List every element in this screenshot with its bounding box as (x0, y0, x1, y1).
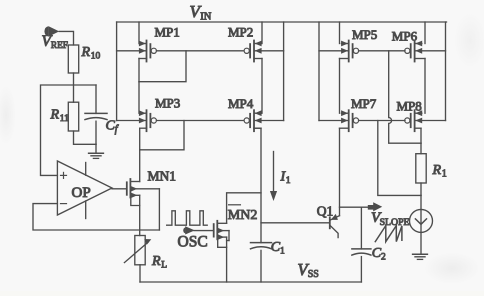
svg-text:MP4: MP4 (228, 96, 254, 111)
label MN2 (inverted clock) (228, 205, 258, 223)
wire MP6 drain to MP8 source (424, 59, 426, 114)
wire MP2 source to rail (261, 22, 263, 44)
wire gate line MP3 MP4 (157, 120, 244, 122)
wire Q1 base from MP4 drain column (261, 222, 329, 224)
label OSC (178, 233, 208, 250)
wire MP1 drain to MP3 source (138, 82, 140, 114)
wire C1 bottom to VSS (260, 250, 262, 282)
label MP7 (351, 96, 377, 111)
ground right (413, 254, 428, 259)
wire MP1 drain down (138, 59, 140, 82)
svg-text:R: R (81, 45, 91, 60)
svg-text:MN2: MN2 (228, 208, 258, 223)
wire left rail of MP5/MP7 group (318, 22, 320, 121)
transistor MN1 (127, 179, 160, 230)
svg-text:MP2: MP2 (228, 25, 253, 40)
label MP8 (397, 98, 422, 113)
capacitor C1 (251, 243, 272, 249)
svg-text:MP8: MP8 (397, 98, 422, 113)
label OP (72, 185, 91, 201)
wire ground stem (95, 144, 97, 153)
wire MP5 drain to MP7 source (339, 59, 341, 114)
wire RL bottom to VSS (139, 265, 141, 282)
transistor MP6 (405, 41, 446, 62)
wire MP8 drain down to R1 (420, 128, 422, 143)
label MP1 (155, 25, 180, 40)
label R11 (50, 108, 70, 125)
svg-text:Q1: Q1 (317, 203, 334, 218)
svg-text:OSC: OSC (178, 233, 208, 250)
transistor Q1 (330, 214, 340, 238)
wire R11 bottom to ground node (74, 131, 97, 144)
wire MP7 drain down to Q1 emitter (339, 128, 341, 216)
svg-text:MP1: MP1 (155, 25, 180, 40)
svg-text:MN1: MN1 (148, 169, 177, 184)
wire R1 top (420, 143, 422, 154)
wire right rail of MP2/MP4 group (283, 22, 285, 121)
wire MP2 drain to MP4 source (261, 59, 263, 114)
label MP5 (352, 27, 377, 42)
label MP3 (155, 95, 180, 110)
OSC pulse waveform (167, 211, 208, 225)
wire op-amp minus feedback (33, 204, 159, 230)
svg-text:11: 11 (60, 114, 69, 124)
transistor MP8 (405, 110, 446, 131)
wire MP1 source to rail (138, 22, 140, 44)
svg-text:10: 10 (91, 52, 101, 62)
svg-text:1: 1 (280, 246, 285, 256)
svg-text:R: R (151, 254, 161, 269)
svg-text:1: 1 (442, 169, 447, 180)
wire MP3 drain down (139, 128, 141, 150)
label MP6 (392, 28, 418, 43)
wire divider node to op-amp plus input (41, 85, 97, 175)
capacitor C2 (352, 249, 371, 255)
svg-text:SS: SS (308, 269, 319, 280)
wire MP6 source to rail (424, 22, 426, 44)
label V_REF (42, 33, 68, 51)
terminal V_SLOPE arrow (368, 202, 382, 211)
wire C2 bottom to VSS (360, 257, 362, 282)
wire Cf bottom (95, 121, 97, 144)
transistor MN2 (214, 221, 229, 248)
wire MN2 source down to VSS (226, 237, 228, 282)
label Cf (106, 119, 119, 136)
label R10 (81, 45, 101, 62)
label MN1 (148, 169, 177, 184)
label V_SS (298, 260, 319, 280)
label MP4 (228, 96, 254, 111)
wire gate line MP7 MP8 (359, 120, 405, 122)
op-amp OP (57, 161, 112, 219)
label Q1 (317, 203, 334, 218)
resistor R10 (68, 45, 78, 73)
svg-text:L: L (161, 261, 167, 271)
wire gate line MP1 MP2 (157, 50, 244, 52)
svg-text:REF: REF (51, 41, 68, 51)
label V_SLOPE (371, 210, 410, 228)
svg-text:R: R (432, 163, 442, 178)
wire MP4 drain column (254, 128, 261, 242)
wire Q1 collector to VSLOPE (340, 206, 371, 208)
OSC output arrow (183, 226, 195, 234)
transistor MP5 (319, 41, 359, 62)
label MP2 (228, 25, 253, 40)
wire gate line MP5 MP6 (359, 50, 405, 52)
wire MP3 diode loop (140, 121, 184, 150)
wire MP5/MP6 gates to R1 top (hop over MP7/MP8 gate line) (389, 51, 421, 143)
current I1 annotation arrow (270, 152, 277, 202)
resistor RL (124, 236, 151, 265)
wire MN1 source down to RL (139, 195, 141, 235)
svg-text:R: R (50, 108, 60, 123)
wire op-amp output to MN1 gate (112, 188, 127, 190)
sawtooth waveform (375, 226, 402, 242)
transistor MP2 (244, 41, 284, 62)
terminal V_REF arrow (44, 26, 59, 36)
capacitor Cf (85, 113, 107, 119)
transistor MP1 (117, 41, 157, 62)
svg-text:MP5: MP5 (352, 27, 377, 42)
wire OSC to MN2 gate (194, 230, 214, 232)
wire MN1 drain up (139, 150, 141, 182)
net V_SS rail wire (140, 281, 361, 283)
wire divider node to Cf (95, 85, 97, 113)
svg-text:MP7: MP7 (351, 96, 377, 111)
label R1 (432, 163, 447, 180)
net V_IN rail wire (117, 21, 447, 23)
wire V_REF to R10 (59, 31, 73, 45)
wire VSLOPE node to C2 (360, 207, 362, 249)
wire MP1 diode loop (139, 51, 186, 82)
wire MN2 drain up to MP4 drain (227, 193, 261, 224)
wire R10 to R11 (73, 73, 75, 102)
svg-text:2: 2 (381, 253, 386, 263)
label V_IN (190, 2, 212, 22)
svg-text:MP6: MP6 (392, 28, 418, 43)
label C1 (271, 240, 285, 257)
label C2 (372, 246, 386, 263)
svg-text:SLOPE: SLOPE (380, 217, 410, 228)
label RL (151, 254, 167, 271)
transistor MP4 (244, 110, 284, 131)
svg-text:IN: IN (200, 11, 211, 22)
transistor MP3 (117, 110, 157, 131)
wire left rail of MP1/MP3 group (116, 22, 118, 121)
ground left (89, 153, 104, 158)
wire MP5 source to rail (339, 22, 341, 44)
resistor R1 (416, 154, 426, 183)
wire MP7/MP8 gates to R1 bottom (378, 121, 421, 196)
resistor R11 (68, 102, 78, 131)
wire R1 bottom node (420, 183, 422, 195)
wire right rail of MP6/MP8 group (445, 22, 447, 121)
label I1 (280, 170, 291, 187)
svg-text:OP: OP (72, 185, 91, 201)
transistor MP7 (319, 110, 359, 131)
svg-text:1: 1 (286, 176, 291, 186)
current source bias (410, 195, 433, 253)
svg-text:MP3: MP3 (155, 95, 180, 110)
